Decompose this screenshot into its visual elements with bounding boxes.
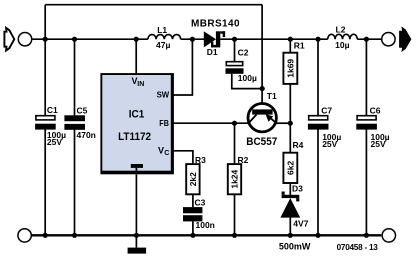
svg-text:1k24: 1k24	[229, 169, 239, 188]
svg-text:1k69: 1k69	[285, 59, 295, 78]
svg-text:25V: 25V	[322, 139, 337, 149]
svg-text:LT1172: LT1172	[118, 131, 151, 143]
svg-text:SW: SW	[157, 90, 170, 100]
svg-text:070458 - 13: 070458 - 13	[337, 243, 379, 252]
svg-text:V: V	[158, 146, 164, 156]
svg-text:D1: D1	[207, 47, 218, 57]
svg-text:L2: L2	[336, 24, 346, 34]
svg-text:4V7: 4V7	[293, 218, 308, 228]
svg-text:C5: C5	[77, 106, 88, 116]
svg-text:R4: R4	[293, 140, 304, 150]
svg-text:T1: T1	[267, 91, 277, 101]
svg-text:C: C	[164, 150, 169, 157]
svg-text:25V: 25V	[47, 137, 62, 147]
svg-text:FB: FB	[159, 118, 169, 128]
svg-text:R1: R1	[294, 40, 305, 50]
svg-text:L1: L1	[157, 25, 167, 35]
svg-text:470n: 470n	[77, 130, 96, 140]
svg-text:C2: C2	[238, 47, 249, 57]
svg-text:MBRS140: MBRS140	[191, 19, 240, 30]
svg-text:BC557: BC557	[246, 136, 277, 148]
svg-text:R2: R2	[238, 155, 249, 165]
svg-text:IC1: IC1	[129, 109, 145, 121]
svg-text:6k2: 6k2	[285, 161, 295, 175]
svg-text:47µ: 47µ	[156, 40, 170, 50]
svg-text:100µ: 100µ	[238, 73, 257, 83]
svg-text:500mW: 500mW	[279, 241, 311, 251]
svg-text:2k2: 2k2	[188, 172, 198, 186]
svg-text:100n: 100n	[196, 220, 215, 230]
svg-text:25V: 25V	[371, 139, 386, 149]
svg-text:C7: C7	[321, 106, 332, 116]
svg-text:C1: C1	[47, 105, 58, 115]
svg-text:R3: R3	[195, 155, 206, 165]
svg-text:10µ: 10µ	[335, 40, 349, 50]
svg-text:IN: IN	[137, 81, 144, 88]
svg-text:C6: C6	[370, 106, 381, 116]
svg-text:D3: D3	[292, 183, 303, 193]
svg-text:C3: C3	[195, 198, 206, 208]
